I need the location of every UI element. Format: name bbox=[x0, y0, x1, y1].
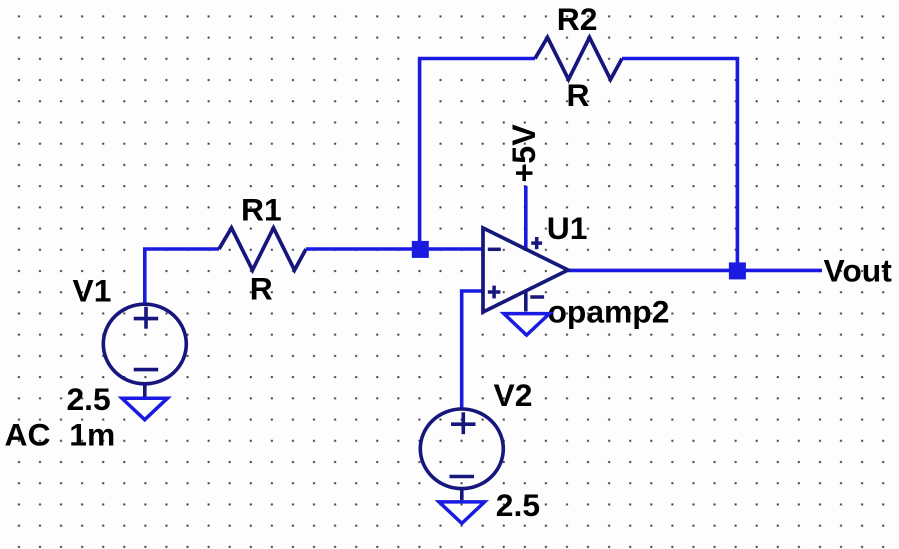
wire op-amp output to Vout bbox=[568, 269, 822, 273]
resistor R2 bbox=[535, 37, 622, 79]
junction node at output bbox=[729, 262, 746, 279]
voltage source V2 bbox=[420, 409, 503, 500]
wire from R2 right down to output node bbox=[622, 59, 737, 271]
svg-text:+5V: +5V bbox=[506, 124, 542, 183]
svg-text:Vout: Vout bbox=[824, 252, 893, 288]
svg-text:U1: U1 bbox=[547, 210, 588, 246]
ground below op-amp bbox=[504, 314, 550, 336]
wire +5V supply to op-amp top power pin bbox=[524, 186, 528, 249]
resistor R1 bbox=[219, 228, 306, 270]
junction node at inverting input bbox=[412, 241, 429, 258]
svg-text:R: R bbox=[567, 77, 590, 113]
svg-text:R2: R2 bbox=[557, 1, 598, 37]
svg-text:V1: V1 bbox=[73, 273, 112, 309]
svg-text:2.5: 2.5 bbox=[67, 381, 111, 417]
svg-text:R1: R1 bbox=[241, 192, 282, 228]
svg-text:R: R bbox=[250, 271, 273, 307]
wire from R1 right to op-amp inverting input bbox=[306, 247, 483, 251]
wire from V1 top to R1 left bbox=[145, 249, 219, 304]
svg-text:AC 1m: AC 1m bbox=[5, 417, 116, 453]
op-amp U1 bbox=[483, 228, 568, 312]
voltage source V1 bbox=[103, 304, 186, 396]
ground below V2 bbox=[439, 502, 485, 524]
svg-text:V2: V2 bbox=[494, 377, 533, 413]
wire from V2 top to op-amp non-inverting input bbox=[462, 291, 483, 409]
ground below V1 bbox=[122, 398, 168, 420]
svg-text:opamp2: opamp2 bbox=[548, 294, 670, 330]
svg-text:2.5: 2.5 bbox=[496, 487, 540, 523]
wire feedback left vertical and top horizontal to R2 bbox=[420, 59, 535, 250]
